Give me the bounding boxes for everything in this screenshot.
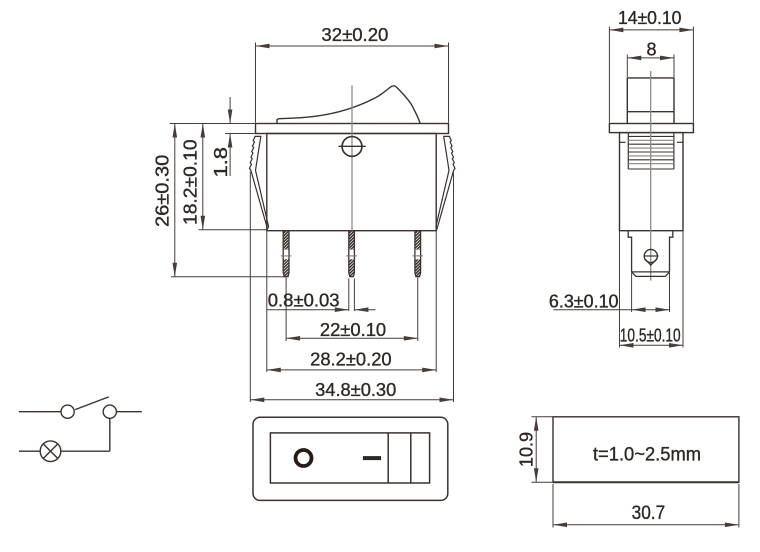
svg-text:22±0.10: 22±0.10: [320, 320, 386, 340]
svg-text:0.8±0.03: 0.8±0.03: [268, 291, 340, 311]
svg-text:t=1.0~2.5mm: t=1.0~2.5mm: [593, 445, 701, 466]
svg-text:34.8±0.30: 34.8±0.30: [315, 380, 396, 400]
svg-text:14±0.10: 14±0.10: [618, 8, 682, 28]
svg-text:1.8: 1.8: [211, 147, 231, 178]
svg-text:32±0.20: 32±0.20: [321, 25, 388, 45]
svg-text:26±0.30: 26±0.30: [153, 155, 173, 227]
svg-text:28.2±0.20: 28.2±0.20: [310, 350, 392, 370]
svg-text:6.3±0.10: 6.3±0.10: [549, 291, 619, 311]
svg-text:8: 8: [646, 39, 656, 59]
svg-text:10.5±0.10: 10.5±0.10: [620, 326, 681, 346]
svg-text:18.2±0.10: 18.2±0.10: [180, 139, 200, 225]
svg-text:30.7: 30.7: [632, 503, 666, 524]
svg-text:10.9: 10.9: [517, 432, 537, 467]
